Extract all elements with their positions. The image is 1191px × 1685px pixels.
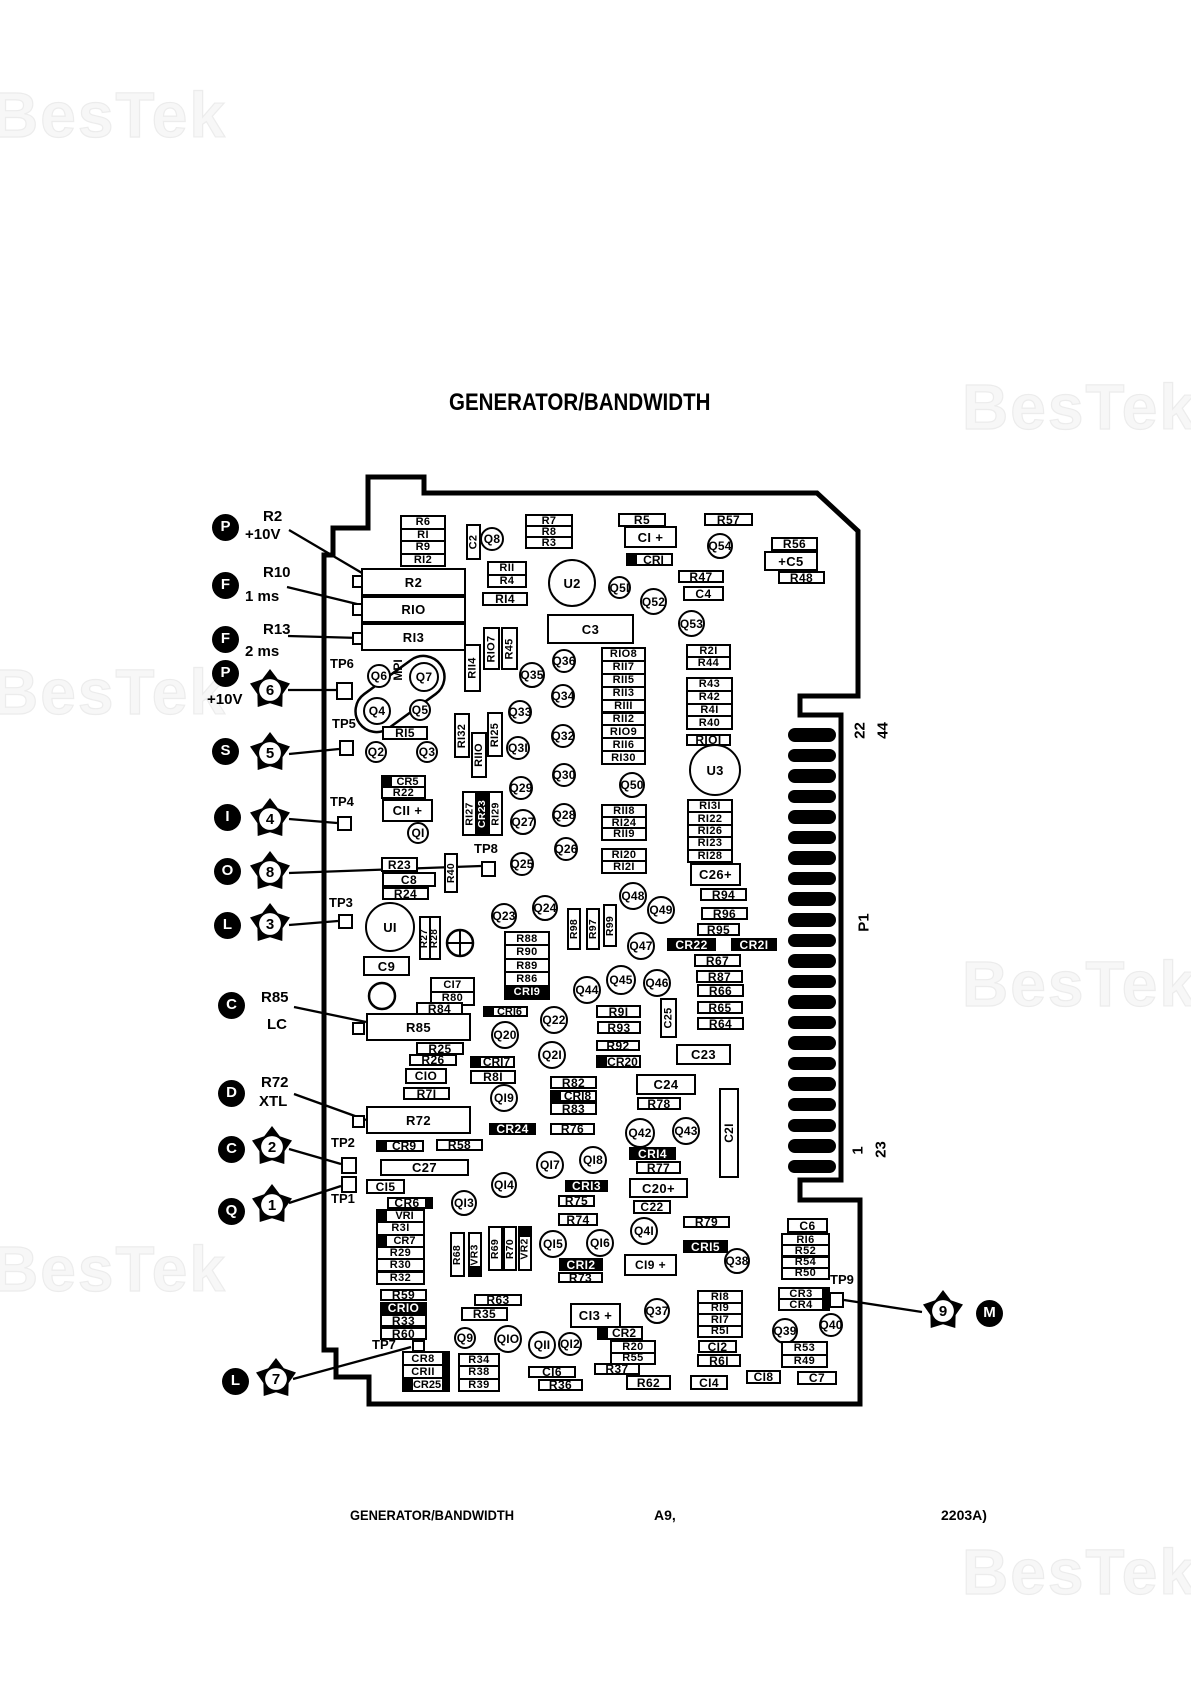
- label R10: [263, 564, 291, 581]
- resistor R58: [436, 1139, 483, 1151]
- diode CR15: [683, 1240, 728, 1253]
- transistor Q30: [552, 763, 576, 787]
- capacitor C16: [528, 1366, 576, 1378]
- transistor Q31: [506, 736, 530, 760]
- resistor R5: [618, 513, 666, 527]
- connector P1 label: [856, 883, 873, 963]
- label TP5: [332, 716, 356, 731]
- transistor Q7: [409, 662, 439, 692]
- diode CR22: [667, 938, 716, 951]
- watermark 2: [962, 370, 1191, 444]
- diode CR14: [629, 1147, 676, 1160]
- resistor R40b: [444, 853, 458, 893]
- label 1 ms: [245, 588, 279, 605]
- R72 lead tab: [352, 1115, 365, 1128]
- transistor Q1: [407, 822, 429, 844]
- resistor R97: [586, 908, 600, 950]
- transistor Q46: [643, 969, 671, 997]
- diode CR13: [565, 1180, 608, 1192]
- resistor R129: [488, 791, 503, 836]
- resistor group R16 R52 R54 R50: [781, 1233, 830, 1280]
- transistor Q49: [647, 896, 675, 924]
- transistor Q20: [491, 1021, 519, 1049]
- capacitor C26: [690, 863, 741, 886]
- resistor R68: [450, 1232, 465, 1277]
- resistor R87: [696, 970, 743, 983]
- diode CR12: [559, 1258, 603, 1271]
- group VR1 R31 CR7 R29 R30 R32: [376, 1209, 425, 1285]
- label MP1: [391, 630, 405, 710]
- resistor R25: [416, 1042, 464, 1055]
- resistor R10: [361, 596, 466, 623]
- capacitor C4: [683, 586, 724, 601]
- varistor VR3: [468, 1232, 482, 1277]
- watermark 6: [962, 1535, 1191, 1609]
- resistor R82: [550, 1076, 597, 1089]
- callout circle L2: [222, 1368, 249, 1395]
- label R72: [261, 1074, 289, 1091]
- resistor R75: [558, 1195, 595, 1207]
- resistor R83: [550, 1102, 597, 1115]
- capacitor C7: [797, 1371, 837, 1385]
- transistor QI2: [558, 1332, 582, 1356]
- resistor R2: [361, 568, 466, 596]
- transistor QII: [528, 1331, 556, 1359]
- callout circle D: [218, 1080, 245, 1107]
- diode CR6: [387, 1197, 433, 1209]
- transistor Q17: [536, 1151, 564, 1179]
- resistor R27: [419, 916, 431, 960]
- transistor Q42: [625, 1118, 655, 1148]
- resistor R132: [454, 713, 470, 758]
- resistor R98: [567, 908, 581, 950]
- capacitor C14: [690, 1375, 728, 1390]
- test point TP9: [829, 1292, 844, 1308]
- pin label 22: [852, 691, 869, 771]
- transistor Q25: [510, 852, 534, 876]
- resistor R92: [596, 1040, 640, 1051]
- resistor R15: [382, 726, 428, 740]
- resistor R74: [558, 1213, 598, 1226]
- footer left: [350, 1507, 514, 1523]
- transistor Q34: [551, 684, 575, 708]
- resistor group R118 R124 R119: [601, 804, 647, 841]
- test point TP3: [338, 914, 353, 929]
- transistor Q51: [608, 576, 631, 599]
- watermark 3: [0, 655, 227, 729]
- transistor Q21: [538, 1041, 566, 1069]
- capacitor C25: [660, 998, 677, 1038]
- resistor R56: [771, 537, 818, 551]
- capacitor C23: [676, 1044, 731, 1065]
- capacitor C24: [636, 1074, 696, 1095]
- test point TP7: [412, 1340, 425, 1352]
- callout circle C: [218, 992, 245, 1019]
- transistor Q8: [480, 527, 504, 551]
- label R13: [263, 621, 291, 638]
- resistor R66: [697, 984, 744, 997]
- transistor Q19: [490, 1084, 518, 1112]
- varistor VR2: [518, 1226, 532, 1271]
- label TP9: [830, 1272, 854, 1287]
- label TP2: [331, 1135, 355, 1150]
- resistor R125: [487, 712, 503, 757]
- transistor Q36: [552, 649, 576, 673]
- label 2 ms: [245, 643, 279, 660]
- transistor Q53: [678, 610, 705, 637]
- resistor R78: [637, 1097, 681, 1110]
- capacitor C27: [380, 1159, 469, 1176]
- transistor Q37: [644, 1298, 670, 1324]
- resistor group R6 R1 R9 R12: [400, 515, 446, 567]
- resistor group R43 R42 R41 R40: [686, 677, 733, 730]
- resistor group R20 R55: [610, 1340, 656, 1365]
- resistor R24: [382, 887, 429, 900]
- label TP4: [330, 794, 354, 809]
- resistor R35: [461, 1307, 508, 1321]
- resistor R71: [403, 1087, 450, 1100]
- test point TP5: [339, 740, 354, 756]
- capacitor C1: [624, 526, 677, 548]
- capacitor C5: [764, 551, 818, 571]
- footer right: [941, 1507, 987, 1523]
- label TP7: [372, 1337, 396, 1352]
- transistor Q32: [551, 724, 575, 748]
- transistor Q40: [819, 1313, 843, 1337]
- diode group CR8 CR11 CR25: [402, 1351, 450, 1392]
- transistor Q41: [630, 1217, 658, 1245]
- capacitor C19: [624, 1254, 677, 1276]
- transistor Q48: [619, 882, 647, 910]
- watermark 5: [0, 1232, 227, 1306]
- transistor Q22: [540, 1006, 568, 1034]
- R10 lead tab: [352, 603, 365, 616]
- capacitor C12: [698, 1340, 737, 1353]
- transistor QI5: [539, 1230, 567, 1258]
- resistor R62: [626, 1375, 671, 1390]
- resistor R70: [503, 1226, 517, 1271]
- resistor group R120 R121: [601, 848, 647, 874]
- resistor group R131 R122 R126 R123 R128: [687, 799, 733, 863]
- watermark 1: [0, 78, 227, 152]
- resistor group R34 R38 R39: [458, 1353, 500, 1392]
- test point TP8: [481, 861, 496, 877]
- label R2: [263, 508, 282, 525]
- resistor R59: [380, 1289, 427, 1301]
- transistor Q47: [627, 932, 655, 960]
- resistor R114: [464, 644, 481, 692]
- label R85: [261, 989, 289, 1006]
- transistor Q54: [707, 533, 733, 559]
- diode CR21: [731, 938, 777, 951]
- diode CR5 / resistor R22: [381, 775, 426, 799]
- diode CR17: [470, 1056, 515, 1068]
- resistor R73: [558, 1272, 603, 1283]
- resistor R64: [697, 1017, 744, 1030]
- diode CR18: [550, 1090, 597, 1102]
- capacitor C8: [382, 872, 436, 887]
- capacitor C11: [382, 799, 433, 822]
- resistor R85: [366, 1013, 471, 1041]
- test point TP1: [341, 1176, 357, 1193]
- capacitor C3: [547, 614, 634, 644]
- transistor Q29: [509, 776, 533, 800]
- capacitor C10: [405, 1068, 447, 1084]
- capacitor C15: [366, 1179, 405, 1194]
- transistor Q2: [365, 741, 387, 763]
- diode CR24: [489, 1123, 536, 1135]
- resistor R101: [686, 734, 731, 746]
- transistor Q39: [772, 1318, 798, 1344]
- callout circle I: [214, 804, 241, 831]
- resistor group R18 R19 R17 R51: [697, 1290, 743, 1338]
- resistor R36: [538, 1379, 583, 1391]
- transistor Q9: [454, 1327, 476, 1349]
- capacitor C18: [746, 1370, 781, 1384]
- label XTL: [259, 1093, 287, 1110]
- callout circle C2: [218, 1136, 245, 1163]
- test point TP6: [336, 682, 353, 700]
- diode CR16: [483, 1006, 528, 1017]
- resistor R33: [380, 1314, 427, 1327]
- transistor Q43: [672, 1117, 700, 1145]
- resistor R61: [697, 1354, 741, 1367]
- transistor Q3: [416, 741, 438, 763]
- resistor R77: [636, 1161, 681, 1174]
- transistor Q13: [451, 1190, 477, 1216]
- resistor R57: [704, 513, 753, 526]
- transistor Q4: [363, 697, 391, 725]
- op-amp U2: [548, 559, 596, 607]
- transistor Q28: [552, 803, 576, 827]
- diode CR10: [380, 1302, 427, 1314]
- callout circle O: [214, 858, 241, 885]
- title: [449, 389, 710, 417]
- label +10V: [245, 526, 280, 543]
- resistor R28: [429, 916, 441, 960]
- capacitor C9: [363, 956, 410, 976]
- resistor group R11 R4: [487, 561, 527, 588]
- transistor Q35: [519, 662, 545, 688]
- resistor R47: [678, 570, 724, 583]
- pin label 44: [875, 691, 892, 771]
- resistor R23: [381, 857, 418, 872]
- transistor Q18: [579, 1146, 607, 1174]
- transistor Q5: [409, 699, 431, 721]
- label +10V 2: [207, 691, 242, 708]
- resistor R99: [603, 904, 617, 947]
- resistor group R7 R8 R3: [525, 514, 573, 549]
- test point TP4: [337, 816, 352, 831]
- transistor Q24: [532, 895, 558, 921]
- label TP1: [331, 1191, 355, 1206]
- diode CR9: [376, 1140, 424, 1152]
- resistor R127: [462, 791, 477, 836]
- capacitor C2: [466, 524, 481, 560]
- transistor Q38: [724, 1248, 750, 1274]
- callout circle P2: [212, 660, 239, 687]
- capacitor C22: [633, 1200, 671, 1214]
- diode CR20: [596, 1055, 641, 1068]
- transistor Q27: [510, 809, 536, 835]
- resistor R45: [501, 627, 518, 670]
- callout circle F: [212, 572, 239, 599]
- resistor R26: [409, 1054, 457, 1066]
- callout circle S: [212, 738, 239, 765]
- label TP3: [329, 895, 353, 910]
- transistor QIO: [494, 1325, 522, 1353]
- transistor Q52: [640, 588, 667, 615]
- connector P1 fingers: [0, 0, 1, 1]
- resistor R63: [474, 1294, 522, 1306]
- R2 lead tab: [352, 575, 365, 588]
- resistor R67: [694, 954, 741, 967]
- diode CR2: [597, 1326, 643, 1340]
- callout circle F2: [212, 626, 239, 653]
- resistor R65: [697, 1001, 743, 1014]
- transistor Q50: [619, 772, 645, 798]
- callout circle L: [214, 912, 241, 939]
- resistor group R108-R130: [601, 647, 646, 765]
- footer center: [654, 1507, 676, 1523]
- resistor R13: [361, 623, 466, 651]
- label LC: [267, 1016, 287, 1033]
- transistor Q45: [606, 965, 636, 995]
- callout circle Q: [218, 1198, 245, 1225]
- diode CR23: [475, 791, 490, 836]
- R85 lead tab: [352, 1022, 365, 1035]
- resistor R48: [778, 571, 825, 584]
- resistor group R88 R90 R89 R86 CR19: [504, 931, 550, 1000]
- resistor R91: [596, 1005, 641, 1018]
- pin label 23: [873, 1110, 890, 1190]
- capacitor C21: [719, 1088, 739, 1178]
- resistor group R21 R44: [686, 644, 731, 670]
- callout circle M: [976, 1300, 1003, 1327]
- callout circle P: [212, 514, 239, 541]
- capacitor C6: [787, 1218, 828, 1233]
- resistor R69: [488, 1226, 503, 1271]
- resistor R95: [697, 923, 740, 936]
- transistor Q14: [491, 1172, 517, 1198]
- resistor R93: [597, 1021, 641, 1034]
- resistor R79: [683, 1216, 730, 1228]
- resistor group R53 R49: [781, 1341, 828, 1368]
- label TP6: [330, 656, 354, 671]
- pin label 1: [850, 1111, 867, 1191]
- resistor R60: [380, 1327, 427, 1340]
- resistor R81: [470, 1070, 516, 1084]
- resistor R76: [550, 1123, 595, 1135]
- transistor Q26: [554, 837, 578, 861]
- resistor R96: [701, 907, 748, 920]
- label TP8: [474, 841, 498, 856]
- resistor R14: [482, 592, 528, 606]
- transistor Q44: [573, 976, 601, 1004]
- op-amp U3: [689, 744, 741, 796]
- resistor R107: [483, 627, 500, 670]
- resistor R94: [700, 888, 747, 901]
- transistor QI6: [586, 1229, 614, 1257]
- diode CR1: [626, 553, 673, 566]
- test point TP2: [341, 1157, 357, 1174]
- transistor Q33: [508, 700, 532, 724]
- resistor R84: [416, 1002, 463, 1015]
- op-amp U1: [365, 902, 415, 952]
- R13 lead tab: [352, 632, 365, 645]
- capacitor C20: [629, 1178, 688, 1198]
- resistor R110: [471, 732, 487, 778]
- resistor R37: [594, 1363, 640, 1375]
- watermark 4: [962, 947, 1191, 1021]
- transistor Q6: [367, 664, 391, 688]
- resistor R72: [366, 1106, 471, 1134]
- diode group CR3 CR4: [778, 1287, 830, 1311]
- capacitor C13: [570, 1303, 621, 1328]
- transistor Q23: [491, 903, 517, 929]
- capacitor C17 / resistor R80: [430, 977, 475, 1006]
